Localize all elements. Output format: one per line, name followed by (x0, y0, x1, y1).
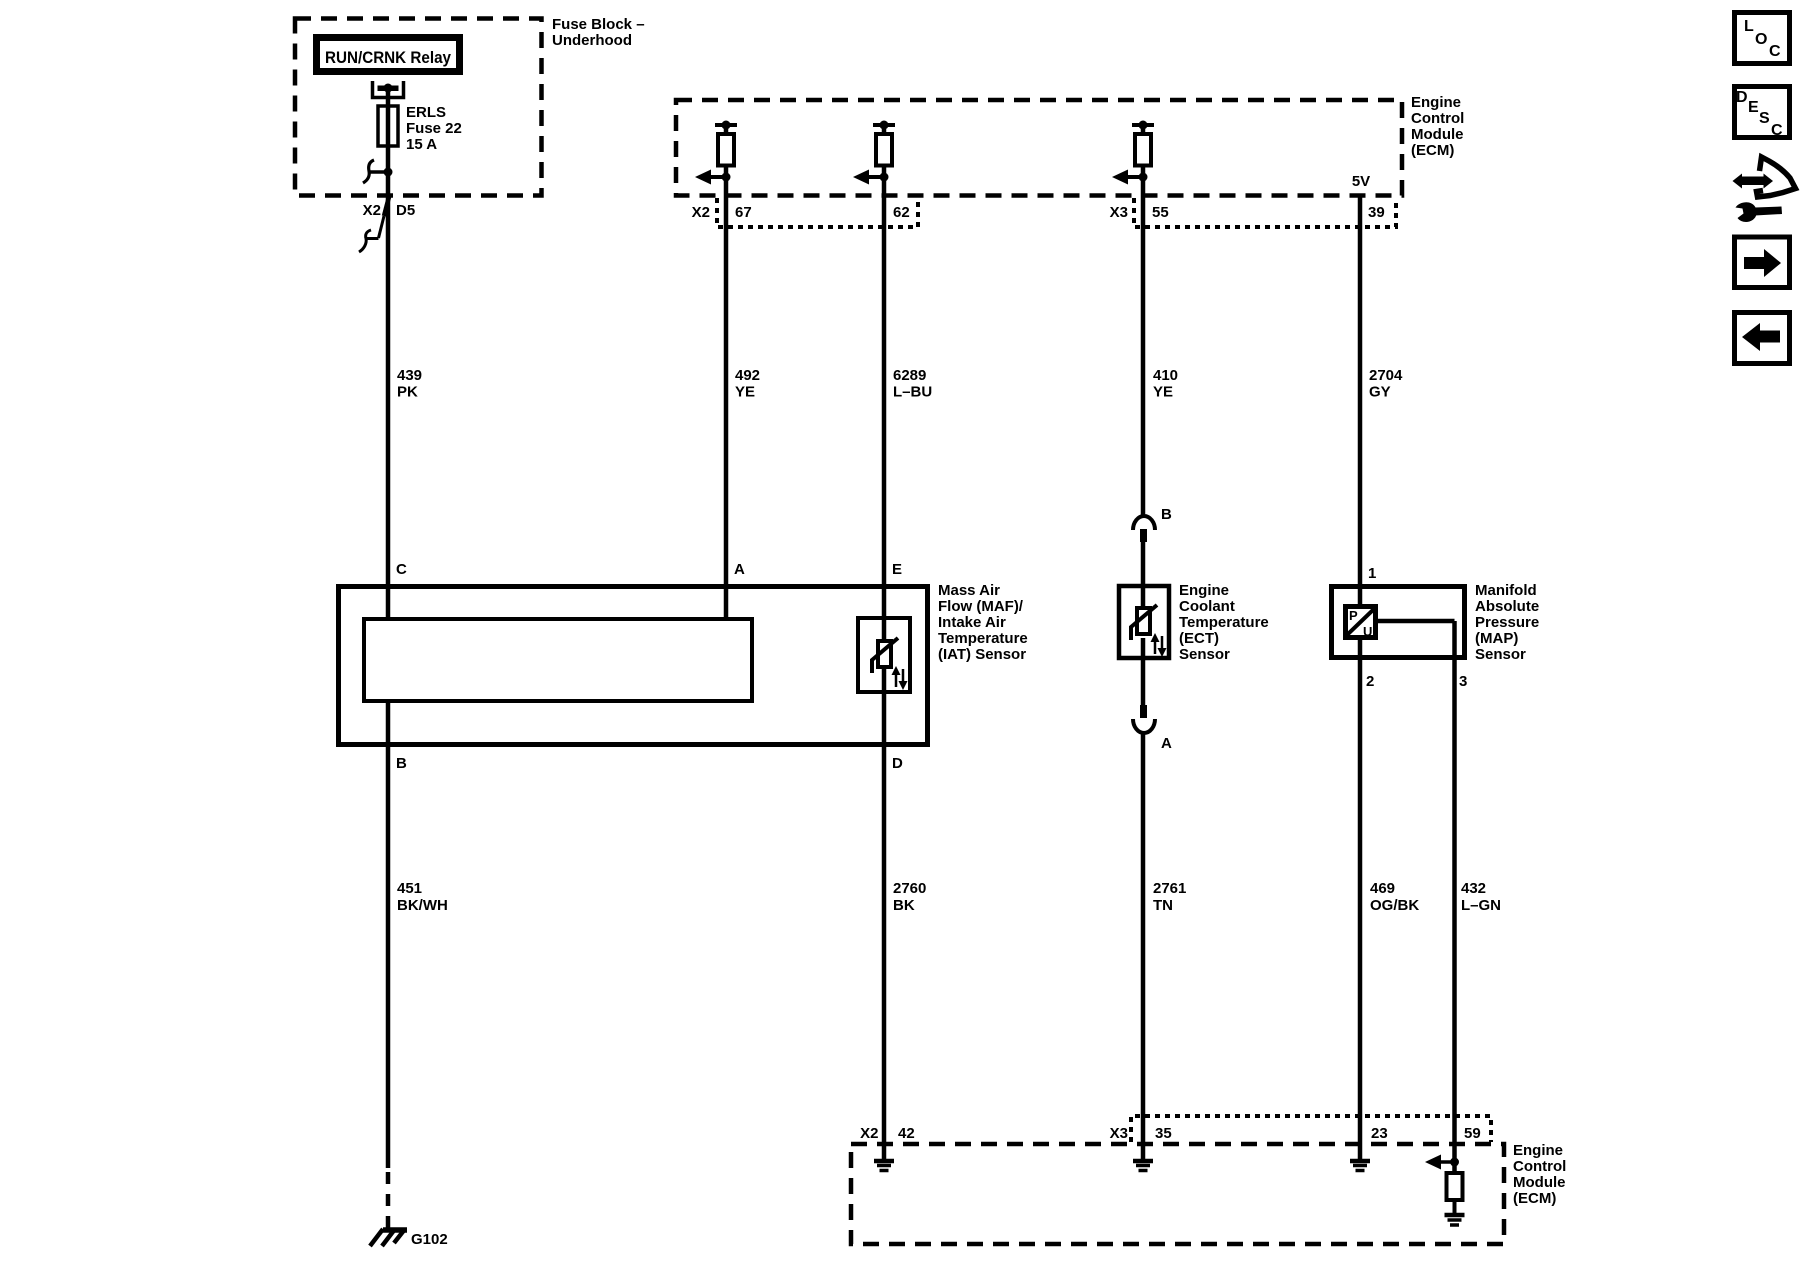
svg-text:P: P (1349, 608, 1358, 623)
svg-text:(ECM): (ECM) (1411, 142, 1454, 159)
svg-text:55: 55 (1152, 204, 1169, 221)
svg-text:Engine: Engine (1179, 582, 1229, 599)
svg-text:2704: 2704 (1369, 367, 1403, 384)
svg-text:Fuse 22: Fuse 22 (406, 120, 462, 137)
svg-text:PK: PK (397, 384, 418, 401)
svg-text:(ECT): (ECT) (1179, 630, 1219, 647)
svg-text:Mass Air: Mass Air (938, 582, 1000, 599)
svg-text:Fuse Block –: Fuse Block – (552, 16, 645, 33)
svg-text:5V: 5V (1352, 173, 1370, 190)
svg-text:L: L (1744, 18, 1754, 35)
svg-text:439: 439 (397, 367, 422, 384)
svg-text:A: A (734, 561, 745, 578)
svg-text:C: C (1771, 122, 1783, 139)
svg-text:X2: X2 (860, 1125, 878, 1142)
svg-text:X2: X2 (692, 204, 710, 221)
svg-text:3: 3 (1459, 673, 1467, 690)
svg-text:G102: G102 (411, 1231, 448, 1248)
svg-text:Engine: Engine (1513, 1142, 1563, 1159)
svg-text:62: 62 (893, 204, 910, 221)
svg-text:Coolant: Coolant (1179, 598, 1235, 615)
svg-text:(IAT) Sensor: (IAT) Sensor (938, 646, 1026, 663)
svg-text:(MAP): (MAP) (1475, 630, 1518, 647)
svg-text:C: C (1769, 43, 1781, 60)
svg-text:Module: Module (1411, 126, 1464, 143)
svg-text:Temperature: Temperature (938, 630, 1028, 647)
svg-text:23: 23 (1371, 1125, 1388, 1142)
svg-text:2: 2 (1366, 673, 1374, 690)
svg-text:1: 1 (1368, 565, 1376, 582)
svg-text:L–BU: L–BU (893, 384, 932, 401)
svg-text:Control: Control (1513, 1158, 1566, 1175)
svg-text:X3: X3 (1110, 204, 1128, 221)
svg-text:Temperature: Temperature (1179, 614, 1269, 631)
svg-text:E: E (892, 561, 902, 578)
svg-text:Engine: Engine (1411, 94, 1461, 111)
svg-text:451: 451 (397, 880, 422, 897)
svg-text:S: S (1759, 110, 1770, 127)
svg-text:35: 35 (1155, 1125, 1172, 1142)
svg-text:492: 492 (735, 367, 760, 384)
svg-text:410: 410 (1153, 367, 1178, 384)
svg-text:BK/WH: BK/WH (397, 897, 448, 914)
svg-text:Pressure: Pressure (1475, 614, 1539, 631)
svg-text:Absolute: Absolute (1475, 598, 1539, 615)
svg-text:Control: Control (1411, 110, 1464, 127)
svg-text:TN: TN (1153, 897, 1173, 914)
svg-text:Sensor: Sensor (1475, 646, 1526, 663)
svg-text:Intake Air: Intake Air (938, 614, 1006, 631)
svg-text:Manifold: Manifold (1475, 582, 1537, 599)
svg-text:X2: X2 (363, 202, 381, 219)
svg-text:432: 432 (1461, 880, 1486, 897)
svg-text:67: 67 (735, 204, 752, 221)
svg-text:2760: 2760 (893, 880, 926, 897)
svg-text:E: E (1748, 99, 1759, 116)
svg-text:B: B (396, 755, 407, 772)
svg-text:O: O (1755, 31, 1767, 48)
svg-text:Flow (MAF)/: Flow (MAF)/ (938, 598, 1024, 615)
svg-text:6289: 6289 (893, 367, 926, 384)
svg-text:A: A (1161, 735, 1172, 752)
svg-text:D5: D5 (396, 202, 415, 219)
svg-text:B: B (1161, 506, 1172, 523)
svg-text:Underhood: Underhood (552, 32, 632, 49)
svg-text:D: D (1736, 89, 1748, 106)
svg-text:42: 42 (898, 1125, 915, 1142)
svg-text:C: C (396, 561, 407, 578)
svg-text:L–GN: L–GN (1461, 897, 1501, 914)
svg-text:Module: Module (1513, 1174, 1566, 1191)
svg-text:RUN/CRNK Relay: RUN/CRNK Relay (325, 48, 451, 67)
svg-text:OG/BK: OG/BK (1370, 897, 1419, 914)
svg-text:39: 39 (1368, 204, 1385, 221)
svg-text:BK: BK (893, 897, 915, 914)
svg-text:59: 59 (1464, 1125, 1481, 1142)
svg-text:YE: YE (1153, 384, 1173, 401)
svg-text:469: 469 (1370, 880, 1395, 897)
svg-text:U: U (1363, 624, 1372, 639)
svg-text:D: D (892, 755, 903, 772)
svg-text:ERLS: ERLS (406, 104, 446, 121)
svg-text:YE: YE (735, 384, 755, 401)
svg-text:GY: GY (1369, 384, 1391, 401)
svg-text:(ECM): (ECM) (1513, 1190, 1556, 1207)
svg-text:15 A: 15 A (406, 136, 437, 153)
svg-text:Sensor: Sensor (1179, 646, 1230, 663)
svg-text:X3: X3 (1110, 1125, 1128, 1142)
svg-text:2761: 2761 (1153, 880, 1186, 897)
